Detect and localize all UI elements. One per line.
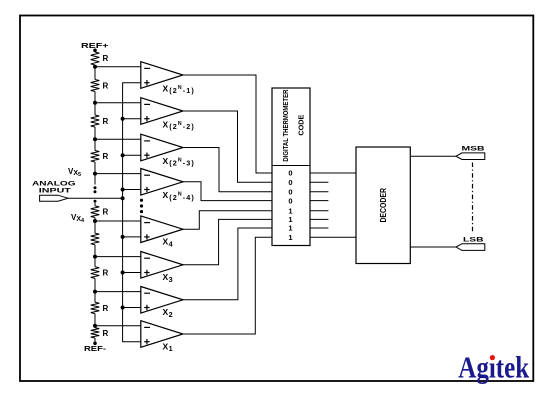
svg-text:MSB: MSB	[462, 146, 485, 153]
node ladder tap junction 5	[93, 219, 97, 223]
wire comparator 5 output to thermometer code box row 5	[183, 211, 272, 229]
svg-text:LSB: LSB	[463, 237, 484, 244]
resistor R4	[91, 151, 100, 163]
wire comparator 6 output to thermometer code box row 6	[183, 219, 272, 264]
svg-text:1: 1	[288, 224, 292, 233]
svg-text:R: R	[103, 152, 109, 161]
node bus junction 2	[121, 117, 125, 121]
LSB terminal flag	[456, 244, 485, 251]
resistor R6	[91, 233, 100, 245]
op-amp comparator U8 X1	[141, 321, 183, 353]
wire ladder segment 11	[94, 338, 96, 343]
svg-text:0: 0	[288, 196, 292, 205]
resistor R7	[91, 267, 100, 279]
wire tap to comparator 7 inverting input	[95, 291, 141, 293]
wire ladder segment 2	[94, 65, 96, 80]
wire bus to comparator 7 non-inverting input	[123, 307, 141, 309]
svg-text:R: R	[103, 269, 109, 278]
wire ladder segment 3	[94, 92, 96, 116]
wire bus to comparator 6 non-inverting input	[123, 272, 141, 274]
svg-text:R: R	[103, 117, 109, 126]
wire analog input bus (vertical)	[123, 83, 141, 342]
op-amp comparator U5 X4	[141, 216, 183, 248]
wire thermometer row 5 stub	[310, 210, 328, 212]
wire bus to comparator 3 non-inverting input	[123, 154, 141, 156]
resistor R1	[91, 52, 100, 65]
svg-text:CODE: CODE	[297, 114, 306, 135]
wire decoder to LSB terminal	[410, 246, 456, 248]
wire tap to comparator 3 inverting input	[95, 138, 141, 140]
thermometer box title divider	[272, 165, 310, 167]
svg-text:0: 0	[288, 178, 292, 187]
wire thermometer row 4 stub	[310, 200, 328, 202]
decoder block U10	[356, 147, 410, 264]
svg-text:R: R	[103, 54, 109, 63]
svg-text:INPUT: INPUT	[39, 187, 72, 194]
resistor R8	[91, 302, 100, 313]
wire tap to comparator 2 inverting input	[95, 102, 141, 104]
svg-text:R: R	[103, 208, 109, 217]
op-amp comparator U7 X2	[141, 287, 183, 319]
node ladder tap junction 6	[93, 255, 97, 259]
svg-text:REF-: REF-	[84, 344, 107, 353]
wire comparator 4 output to thermometer code box row 4	[183, 182, 272, 201]
comparator column continuation dots	[140, 199, 143, 202]
wire ladder segment 4	[94, 127, 96, 151]
wire thermometer row 3 stub	[310, 191, 328, 193]
node analog input bus junction	[121, 196, 125, 200]
node bus junction 5	[121, 235, 125, 239]
MSB terminal flag	[456, 153, 485, 160]
svg-text:R: R	[103, 329, 109, 338]
op-amp comparator U2 X(2^N-2)	[141, 98, 195, 131]
wire ladder segment 9	[94, 278, 96, 302]
wire ladder segment 6	[94, 203, 96, 206]
wire thermometer row 1 to decoder	[310, 172, 356, 174]
wire comparator 8 output to thermometer code box row 8	[183, 237, 272, 334]
wire thermometer row 7 stub	[310, 227, 328, 229]
node bus junction 7	[121, 306, 125, 310]
resistor R3	[91, 115, 100, 127]
node ladder tap junction 1	[93, 65, 97, 69]
wire decoder to MSB terminal	[410, 155, 456, 157]
op-amp comparator U6 X3	[141, 252, 183, 284]
node bus junction 4	[121, 188, 125, 192]
op-amp comparator U1 X(2^N-1)	[141, 62, 195, 95]
resistor R5	[91, 206, 100, 218]
node REF+ terminal dot	[93, 49, 97, 53]
wire thermometer row 6 stub	[310, 218, 328, 220]
op-amp comparator U3 X(2^N-3)	[141, 134, 195, 167]
wire bus to comparator 4 non-inverting input	[123, 189, 141, 191]
wire comparator 1 output to thermometer code box row 1	[183, 75, 272, 173]
node bus junction 6	[121, 271, 125, 275]
resistor R9	[91, 328, 100, 338]
ladder continuation dots (below analog input)	[94, 200, 97, 203]
node ladder tap junction 3	[93, 137, 97, 141]
wire analog input to bus	[68, 197, 123, 199]
wire tap to comparator 8 inverting input	[95, 325, 141, 327]
wire ladder segment 10	[94, 314, 96, 328]
node REF- terminal dot	[93, 342, 97, 346]
node bus junction 3	[121, 153, 125, 157]
wire ladder segment 7	[94, 218, 96, 234]
wire thermometer row 8 to decoder	[310, 236, 356, 238]
wire tap to comparator 1 inverting input	[95, 66, 141, 68]
node ladder tap junction 4	[93, 172, 97, 176]
wire tap to comparator 4 inverting input	[95, 173, 141, 175]
op-amp comparator U4 X(2^N-4)	[141, 169, 195, 202]
node ladder tap junction 2	[93, 101, 97, 105]
ladder continuation dots (above analog input)	[94, 186, 97, 189]
svg-text:0: 0	[288, 188, 292, 197]
wire thermometer row 2 stub	[310, 181, 328, 183]
analog input terminal arrow	[40, 195, 68, 201]
svg-text:1: 1	[288, 233, 292, 242]
resistor R2	[91, 80, 100, 92]
svg-text:R: R	[103, 82, 109, 91]
wire comparator 3 output to thermometer code box row 3	[183, 148, 272, 192]
svg-text:DIGITAL THERMOMETER: DIGITAL THERMOMETER	[281, 89, 290, 162]
wire tap to comparator 5 inverting input	[95, 220, 141, 222]
wire comparator 2 output to thermometer code box row 2	[183, 111, 272, 182]
Agitek logo	[458, 351, 529, 385]
wire ladder segment 5	[94, 162, 96, 185]
wire bus to comparator 2 non-inverting input	[123, 118, 141, 120]
svg-text:R: R	[103, 304, 109, 313]
svg-text:DECODER: DECODER	[379, 188, 388, 223]
node ladder tap junction 8	[93, 324, 97, 328]
wire bus to comparator 5 non-inverting input	[123, 236, 141, 238]
digital thermometer code box U9	[272, 88, 310, 246]
dashed line between MSB and LSB	[472, 163, 474, 234]
wire tap to comparator 6 inverting input	[95, 256, 141, 258]
wire comparator 7 output to thermometer code box row 7	[183, 228, 272, 300]
svg-text:0: 0	[288, 169, 292, 178]
wire ladder segment 8	[94, 245, 96, 267]
node ladder tap junction 7	[93, 290, 97, 294]
wire ladder segment 1	[94, 50, 96, 52]
